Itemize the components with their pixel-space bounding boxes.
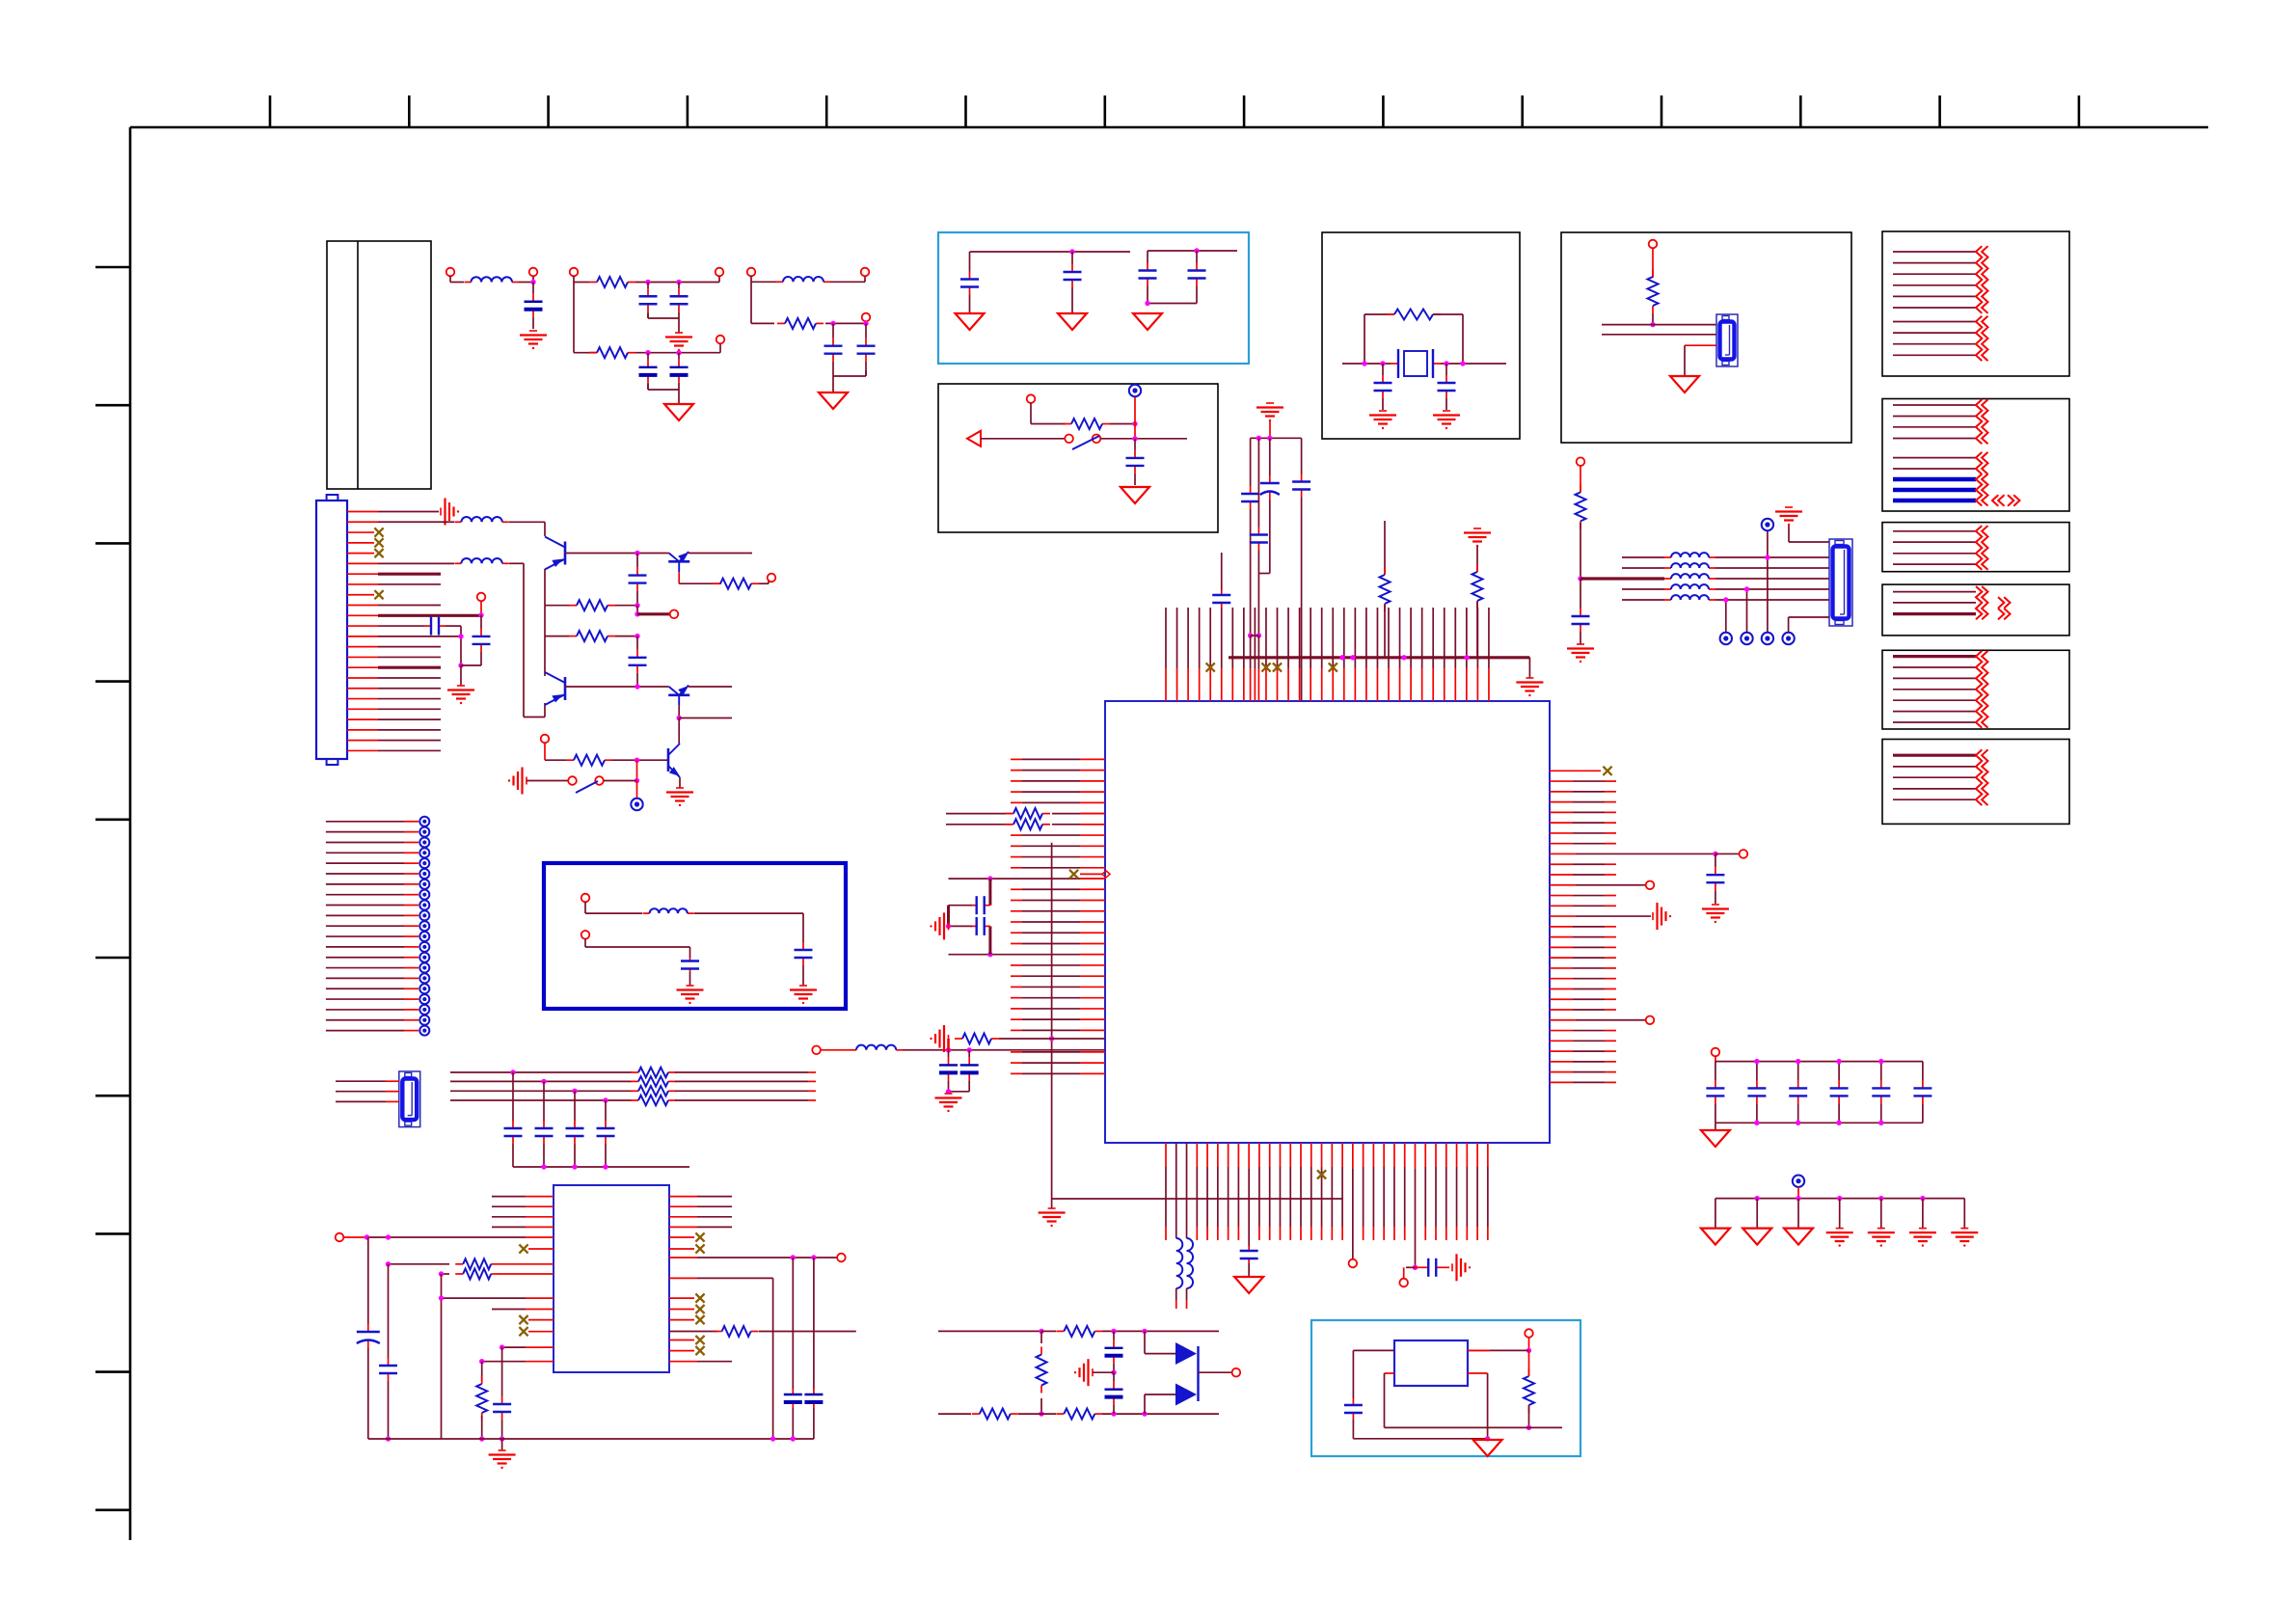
wire	[669, 1257, 837, 1259]
wire	[759, 580, 769, 583]
inductor L9	[1664, 556, 1671, 558]
wire U2 left pin	[492, 1226, 554, 1228]
capacitor C28b	[1221, 553, 1223, 590]
node OUT4	[768, 574, 776, 582]
power pin VCC	[1129, 385, 1141, 396]
ground	[1473, 528, 1481, 529]
capacitor C16	[480, 615, 482, 629]
wire	[970, 252, 1131, 266]
capacitor C6	[832, 323, 834, 338]
node TP5	[1646, 1015, 1655, 1024]
capacitor C2	[647, 283, 649, 289]
junction	[967, 1047, 972, 1052]
wire TP row 16	[326, 977, 419, 979]
wire	[1251, 636, 1259, 701]
wire	[1093, 1371, 1114, 1373]
no-connect	[519, 1244, 527, 1253]
ground	[1266, 402, 1274, 404]
ground	[675, 332, 683, 334]
transistor Q1	[564, 542, 567, 565]
ground	[457, 685, 465, 687]
IC U2	[554, 1185, 669, 1372]
wire U1 left pin	[1011, 834, 1105, 836]
wire	[1789, 617, 1829, 633]
junction	[1920, 1196, 1925, 1201]
power pin	[1762, 633, 1773, 644]
ground	[1473, 1440, 1502, 1456]
wire	[1186, 1288, 1188, 1309]
wire	[1052, 813, 1105, 815]
wire TP row 1	[326, 821, 419, 823]
wire	[1622, 588, 1664, 590]
wire U1 right pin	[1550, 978, 1616, 980]
junction	[635, 684, 639, 689]
ground	[1712, 904, 1719, 906]
junction	[603, 1097, 608, 1102]
wire U1 left pin	[1011, 791, 1105, 793]
ground	[440, 508, 442, 516]
transistor Q3	[564, 677, 567, 700]
wire U1 left pin	[1011, 964, 1105, 966]
transistor Q2	[668, 560, 689, 563]
wire	[1342, 363, 1506, 365]
wire	[545, 605, 569, 607]
junction	[1194, 248, 1199, 253]
wire U1 bottom pin	[1258, 1143, 1260, 1240]
wire	[938, 1413, 971, 1415]
junction	[1526, 1425, 1531, 1430]
wire U1 right pin	[1550, 895, 1616, 897]
no-connect	[695, 1336, 704, 1344]
wire emitter Q4	[689, 686, 732, 688]
wire U1 top pin 22	[1399, 608, 1401, 701]
wire	[336, 1091, 399, 1093]
power pin	[419, 901, 429, 910]
wire	[1175, 1143, 1177, 1238]
wire pin6	[347, 562, 454, 564]
wire	[1797, 1199, 1799, 1229]
junction	[439, 1295, 444, 1300]
wire U1 bottom pin	[1393, 1143, 1395, 1240]
capacitor C13	[1382, 364, 1384, 375]
wire	[635, 276, 719, 283]
wire TP row 14	[326, 957, 419, 959]
inductor L8	[1187, 1238, 1194, 1288]
no-connect	[374, 528, 383, 536]
junction	[500, 1436, 504, 1441]
junction	[635, 551, 639, 555]
wire U1 right pin	[1550, 967, 1616, 969]
wire	[792, 1258, 794, 1389]
no-connect	[1069, 870, 1078, 879]
wire	[1248, 1143, 1250, 1169]
wire	[1550, 770, 1601, 771]
wire U2 right pin	[669, 1216, 732, 1218]
wire	[1685, 345, 1716, 376]
crystal group box	[1322, 232, 1520, 439]
wire	[615, 636, 637, 637]
capacitor C28	[1257, 438, 1259, 527]
wire U1 right pin	[1550, 1081, 1616, 1083]
capacitor C45	[1715, 1062, 1716, 1081]
wire	[1248, 1169, 1250, 1246]
inductor L6	[850, 1049, 856, 1051]
wire	[999, 1038, 1105, 1040]
wire	[669, 1331, 717, 1333]
wire U1 top pin 18	[1354, 608, 1356, 701]
wire	[792, 1408, 794, 1439]
resistor R18	[455, 1263, 463, 1265]
wire	[689, 972, 691, 986]
wire U1 right pin	[1550, 843, 1616, 845]
capacitor C5	[678, 353, 680, 360]
inductor L10	[1664, 567, 1671, 569]
no-connect	[374, 590, 383, 599]
node TP6	[1349, 1259, 1358, 1268]
wire	[970, 300, 1073, 313]
wire U1 top pin 11	[1277, 608, 1279, 701]
wire	[637, 612, 669, 615]
wire emitter Q5	[679, 777, 681, 788]
wire U1 bottom pin	[1289, 1143, 1291, 1240]
wire U1 right pin	[1550, 957, 1616, 959]
wire U1 left pin	[1011, 900, 1105, 902]
power pin	[419, 994, 429, 1004]
wire	[1040, 1398, 1042, 1414]
wire	[499, 1273, 554, 1275]
wire U1 bottom pin	[1487, 1143, 1489, 1240]
power pin MAIN	[1793, 1176, 1804, 1187]
wire	[669, 1350, 694, 1352]
node DOUT	[1232, 1368, 1241, 1377]
wire U1 right pin	[1550, 1050, 1616, 1052]
wire U1 right pin	[1550, 946, 1616, 948]
wire U1 left pin	[1011, 801, 1105, 803]
connector box CN3	[1882, 231, 2069, 376]
wire	[545, 743, 566, 760]
node FIN1	[581, 894, 590, 903]
capacitor C23	[574, 1091, 576, 1121]
junction	[1339, 655, 1344, 660]
wire	[947, 1039, 950, 1050]
junction	[458, 663, 463, 667]
ground	[676, 787, 684, 789]
wire	[1715, 556, 1829, 558]
wire	[1414, 1143, 1416, 1267]
resistor R13	[631, 1090, 638, 1092]
node OUT3B	[862, 313, 871, 322]
wire U1 left pin	[1011, 1072, 1105, 1074]
wire pin11	[347, 614, 481, 616]
wire	[585, 902, 642, 913]
wire U1 right pin	[1550, 791, 1616, 793]
junction	[1878, 1059, 1883, 1064]
wire TP row 12	[326, 935, 419, 937]
wire	[615, 605, 637, 607]
ground	[1785, 506, 1793, 508]
resistor R16	[1476, 564, 1478, 572]
power pin	[419, 890, 429, 900]
junction	[1485, 1436, 1490, 1441]
junction	[946, 1089, 951, 1094]
wire	[1528, 1350, 1530, 1376]
wire	[460, 626, 462, 665]
wire TP row 20	[326, 1019, 419, 1021]
wire	[751, 322, 774, 324]
wire U1 top pin 13	[1299, 608, 1301, 701]
capacitor C29	[971, 905, 977, 907]
wire	[480, 601, 482, 615]
wire	[669, 1361, 732, 1363]
wire pin9	[347, 594, 374, 596]
wire pin4	[347, 542, 374, 544]
node TP1	[477, 593, 486, 602]
switch S2	[568, 776, 604, 793]
wire pin8	[347, 583, 441, 585]
ground	[1742, 1229, 1771, 1245]
no-connect	[1206, 663, 1215, 671]
power pin	[419, 817, 429, 826]
wire U1 left pin	[1011, 942, 1105, 944]
wire	[675, 1071, 816, 1073]
wire	[1580, 632, 1581, 644]
wire	[527, 780, 568, 782]
ground	[819, 392, 848, 409]
diode D2	[1145, 1384, 1197, 1415]
capacitor C41	[1113, 1331, 1115, 1340]
wire U1 top pin 17	[1343, 608, 1345, 701]
resistor R9	[569, 636, 577, 637]
wire U1 right pin	[1550, 874, 1616, 876]
wire	[833, 370, 866, 392]
wire	[1403, 1267, 1405, 1279]
wire U1 top pin 4	[1199, 608, 1201, 701]
wire TP row 5	[326, 862, 419, 864]
power pin	[419, 963, 429, 973]
wire	[669, 1340, 694, 1341]
inductor L11	[1664, 578, 1671, 580]
junction	[1111, 1411, 1116, 1416]
junction	[1380, 361, 1385, 365]
junction	[1039, 1411, 1043, 1416]
resistor R21	[715, 1331, 722, 1333]
resistor R25	[1056, 1413, 1064, 1415]
capacitor C38	[388, 1354, 390, 1358]
junction	[1444, 361, 1448, 365]
wire	[612, 759, 668, 761]
junction	[1650, 322, 1655, 327]
junction	[572, 1164, 577, 1169]
capacitor C42	[1113, 1372, 1115, 1381]
wire	[759, 1331, 856, 1333]
resistor R8	[569, 605, 577, 607]
capacitor C26	[1269, 438, 1271, 475]
junction	[1142, 1411, 1147, 1416]
connector box CN7	[1882, 650, 2069, 729]
capacitor C35	[1415, 1266, 1428, 1268]
node BIAS	[541, 735, 550, 744]
junction	[635, 758, 639, 763]
wire	[442, 1273, 450, 1275]
junction	[1754, 1059, 1759, 1064]
power pin	[1720, 633, 1732, 644]
junction	[1145, 301, 1149, 306]
wire	[946, 824, 1012, 826]
wire pin1	[347, 511, 439, 513]
junction	[1460, 361, 1465, 365]
junction	[1248, 633, 1253, 637]
capacitor C4	[647, 353, 649, 360]
no-connect	[695, 1244, 704, 1253]
junction	[770, 1436, 775, 1441]
wire pin18	[347, 688, 441, 690]
ground	[1577, 643, 1584, 645]
wire pin12	[347, 625, 424, 627]
wire	[1352, 1143, 1354, 1259]
wire TP row 10	[326, 914, 419, 916]
wire	[481, 1416, 483, 1439]
inductor L1	[465, 282, 472, 284]
wire	[669, 1297, 694, 1299]
wire U1 left pin	[1011, 986, 1105, 988]
wire	[675, 1080, 816, 1082]
junction	[1362, 361, 1366, 365]
wire	[830, 276, 865, 282]
capacitor C47	[1797, 1062, 1799, 1081]
wire U1 bottom pin	[1196, 1143, 1198, 1240]
wire pin22	[347, 729, 441, 731]
junction	[645, 280, 650, 284]
ground	[945, 1093, 953, 1095]
wire U1 top pin 8	[1243, 608, 1245, 701]
wire	[1725, 600, 1727, 633]
ground	[529, 330, 537, 332]
wire U1 left pin	[1011, 1008, 1105, 1010]
junction	[1878, 1196, 1883, 1201]
junction	[791, 1255, 796, 1259]
junction	[500, 1344, 504, 1349]
junction	[1836, 1059, 1841, 1064]
wire	[528, 1319, 554, 1321]
wire	[1652, 313, 1654, 325]
junction	[510, 1069, 515, 1074]
resistor R7	[713, 582, 720, 584]
wire U1 bottom pin	[1228, 1143, 1229, 1240]
wire	[1715, 1123, 1716, 1130]
resistor R1	[589, 282, 597, 284]
wire U2 left pin	[492, 1205, 554, 1207]
capacitor C17	[636, 554, 638, 568]
node VOUT	[1525, 1329, 1533, 1338]
capacitor C15	[424, 625, 431, 627]
capacitor C44	[1580, 609, 1581, 616]
ground	[1048, 1207, 1056, 1209]
wire U1 top pin 14	[1310, 608, 1311, 701]
resistor R11	[631, 1071, 638, 1073]
capacitor C3	[678, 283, 680, 289]
node TP4	[1646, 880, 1655, 889]
wire U1 top pin 28	[1466, 608, 1468, 701]
wire emitter Q1	[544, 569, 546, 606]
wire	[461, 665, 481, 686]
wire	[574, 352, 597, 354]
connector CN1	[316, 495, 347, 765]
wire TP row 21	[326, 1030, 419, 1032]
wire	[694, 913, 803, 937]
inductor L4	[454, 562, 461, 564]
wire TP row 19	[326, 1009, 419, 1011]
power pin AVDD	[1762, 519, 1773, 530]
wire U1 top pin 29	[1476, 608, 1478, 701]
ground	[1652, 912, 1654, 920]
no-connect	[374, 538, 383, 547]
capacitor C12	[1134, 439, 1136, 450]
wire	[1134, 397, 1136, 439]
crystal Y1	[1398, 349, 1433, 378]
junction	[1256, 436, 1261, 441]
power pin	[419, 1015, 429, 1025]
junction	[1142, 1329, 1147, 1334]
wire	[450, 276, 464, 283]
resistor R17	[955, 1038, 962, 1040]
wire U1 left pin	[1011, 1062, 1105, 1064]
wire U1 left pin	[1011, 758, 1105, 760]
wire U1 bottom pin	[1300, 1143, 1302, 1240]
wire	[481, 1362, 483, 1381]
ground	[1451, 1263, 1453, 1271]
wire	[1746, 589, 1748, 633]
wire	[388, 1385, 390, 1439]
capacitor C27	[1301, 438, 1303, 474]
capacitor C9	[1071, 252, 1073, 264]
IC U3 regulator	[1394, 1340, 1468, 1386]
ground	[1960, 1228, 1968, 1230]
wire U1 bottom pin	[1424, 1143, 1426, 1240]
node TP8	[837, 1254, 846, 1262]
wire	[1476, 602, 1478, 658]
wire U1 top pin 26	[1444, 608, 1445, 701]
wire pin15	[347, 656, 441, 658]
ground	[687, 985, 694, 987]
wire	[1602, 324, 1716, 326]
capacitor C10	[1147, 251, 1148, 263]
capacitor C31	[948, 1050, 950, 1058]
power pin	[419, 984, 429, 993]
wire	[499, 1263, 554, 1265]
ground	[948, 922, 950, 930]
wire U1 top pin 6	[1221, 608, 1223, 701]
wire	[1622, 556, 1664, 558]
wire	[1652, 248, 1654, 278]
connector group box	[1561, 232, 1851, 443]
wire	[648, 313, 679, 333]
wire	[1528, 1338, 1530, 1350]
capacitor C36	[501, 1393, 503, 1396]
junction	[635, 778, 639, 783]
wire	[1353, 1350, 1394, 1398]
wire	[675, 1090, 816, 1092]
wire	[1040, 1331, 1042, 1343]
wire	[442, 1274, 554, 1439]
wire pin14	[347, 646, 441, 648]
wire U1 top pin 16	[1332, 608, 1334, 701]
junction	[1723, 597, 1728, 602]
wire	[1550, 853, 1715, 854]
no-connect	[1261, 663, 1270, 671]
wire U1 left pin	[1011, 867, 1105, 869]
junction	[479, 1436, 484, 1441]
node OUT1	[529, 268, 538, 277]
